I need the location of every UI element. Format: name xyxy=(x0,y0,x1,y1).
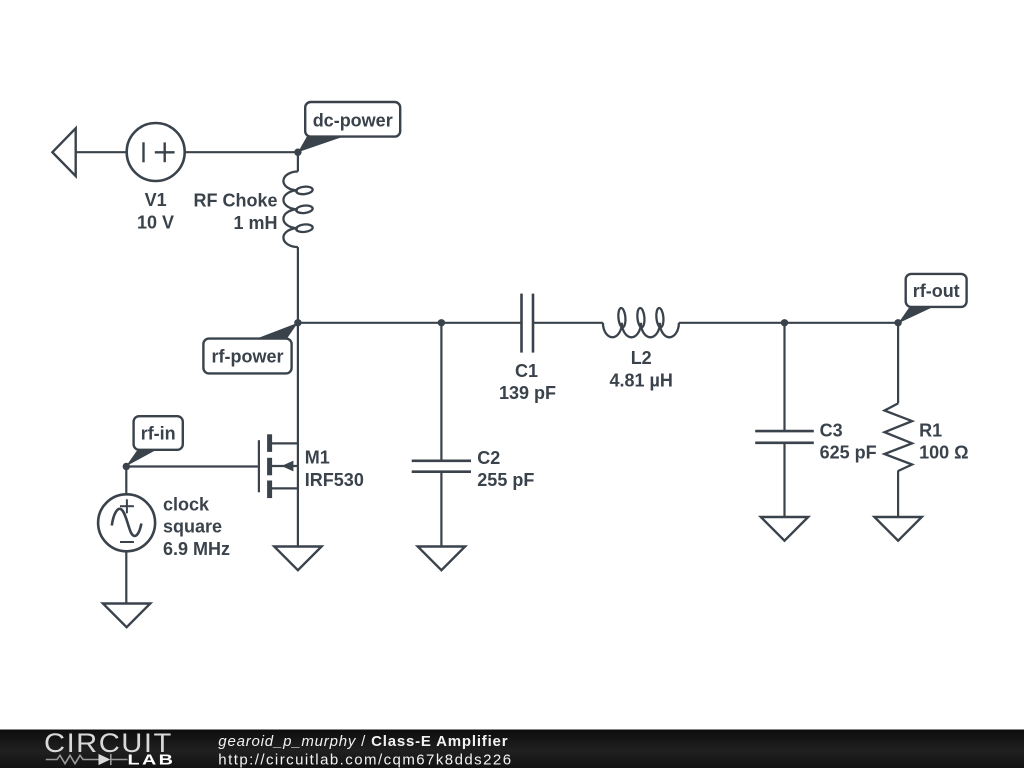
svg-text:M1: M1 xyxy=(305,448,330,468)
svg-text:IRF530: IRF530 xyxy=(305,470,364,490)
svg-text:V1: V1 xyxy=(145,190,167,210)
svg-text:100 Ω: 100 Ω xyxy=(919,443,968,463)
svg-text:http://circuitlab.com/cqm67k8d: http://circuitlab.com/cqm67k8dds226 xyxy=(218,751,512,768)
svg-text:10 V: 10 V xyxy=(137,213,174,233)
svg-text:RF Choke: RF Choke xyxy=(193,191,277,211)
svg-text:LAB: LAB xyxy=(128,751,176,768)
svg-text:139 pF: 139 pF xyxy=(499,383,556,403)
svg-text:rf-power: rf-power xyxy=(212,347,284,367)
svg-text:R1: R1 xyxy=(919,421,942,441)
svg-text:C2: C2 xyxy=(477,448,500,468)
svg-text:625 pF: 625 pF xyxy=(820,443,877,463)
svg-text:clock: clock xyxy=(163,495,210,515)
svg-text:C3: C3 xyxy=(820,421,843,441)
svg-text:gearoid_p_murphy / Class-E Amp: gearoid_p_murphy / Class-E Amplifier xyxy=(218,733,508,750)
svg-text:6.9 MHz: 6.9 MHz xyxy=(163,539,230,559)
svg-text:dc-power: dc-power xyxy=(313,110,393,130)
svg-text:C1: C1 xyxy=(515,361,538,381)
svg-text:4.81 µH: 4.81 µH xyxy=(609,370,672,390)
svg-text:L2: L2 xyxy=(631,348,652,368)
svg-text:rf-in: rf-in xyxy=(141,424,176,444)
svg-text:255 pF: 255 pF xyxy=(477,470,534,490)
svg-text:1 mH: 1 mH xyxy=(233,213,277,233)
svg-text:square: square xyxy=(163,517,222,537)
svg-text:rf-out: rf-out xyxy=(913,281,960,301)
